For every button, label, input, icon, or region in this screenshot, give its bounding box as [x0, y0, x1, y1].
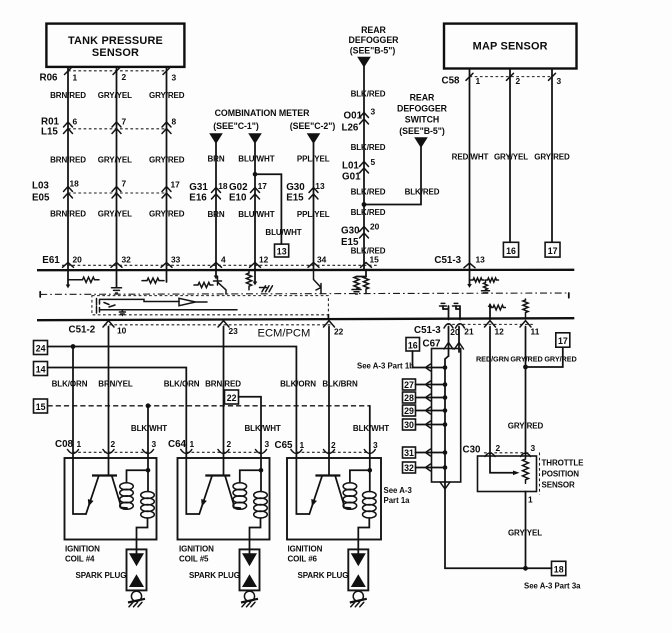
connector L03 / E05 row	[32, 178, 180, 203]
svg-text:3: 3	[557, 76, 562, 86]
svg-text:(SEE"B-5"): (SEE"B-5")	[350, 46, 396, 56]
pin entry chevron C67 right	[455, 343, 464, 350]
svg-text:4: 4	[221, 255, 226, 265]
svg-text:6: 6	[73, 117, 78, 127]
svg-text:E15: E15	[286, 193, 304, 204]
arrow from combination meter to BRN wire	[209, 133, 223, 144]
ECM internal: stub pin 32 with ground	[112, 271, 122, 293]
svg-text:GRY/YEL: GRY/YEL	[494, 153, 528, 162]
arrow from combination meter to BLU/WHT wire	[248, 133, 262, 144]
node junction of switch wire and main wire	[362, 202, 367, 207]
ECM internal: resistor between pins 32-33	[142, 278, 164, 283]
ECM internal: vertical resistor at pin 11	[523, 299, 528, 319]
TPS pin 1 wire GRY/YEL	[525, 492, 527, 569]
svg-text:GRY/RED: GRY/RED	[149, 91, 185, 100]
boxed ref 24	[34, 341, 48, 355]
svg-text:GRY/RED: GRY/RED	[534, 153, 570, 162]
svg-text:2: 2	[111, 439, 116, 449]
connector C64 row	[168, 439, 270, 454]
svg-text:3: 3	[371, 106, 376, 116]
ECM internal: long internal rail	[109, 310, 237, 316]
svg-text:G31: G31	[189, 182, 208, 193]
ECM internal: stub pin 13 RED/WHT with arrow	[467, 271, 472, 288]
wire C51-3 pin 12 RED/GRN to TPS pin 2	[489, 327, 491, 457]
svg-text:E16: E16	[189, 193, 207, 204]
ECM internal: transistor at pin 34	[314, 271, 322, 294]
svg-text:BRN/YEL: BRN/YEL	[98, 379, 133, 388]
wire branch from BLU/WHT node to boxed 13	[255, 174, 281, 244]
svg-text:BLK/RED: BLK/RED	[351, 187, 386, 196]
svg-text:2: 2	[516, 76, 521, 86]
ECM internal: vertical resistor right of pin 34 area	[246, 271, 251, 290]
svg-text:8: 8	[172, 117, 177, 127]
node bus pin 28	[443, 395, 448, 400]
svg-text:23: 23	[229, 326, 239, 336]
connector G30 / E15 row (right)	[341, 221, 380, 248]
svg-text:BLK/BRN: BLK/BRN	[322, 379, 358, 388]
ECM internal: stub pin 33	[166, 271, 168, 282]
node coil 6 pin 3 junction	[368, 468, 373, 473]
wire C51-3 pin 20 into C67	[448, 327, 450, 357]
svg-text:C51-3: C51-3	[414, 325, 441, 336]
svg-text:C64: C64	[168, 439, 187, 450]
svg-text:3: 3	[531, 443, 536, 453]
boxed ref 16 (GRY/YEL destination)	[503, 242, 518, 257]
svg-text:G30: G30	[341, 225, 360, 236]
svg-text:BLK/WHT: BLK/WHT	[353, 424, 389, 433]
svg-text:16: 16	[408, 340, 418, 350]
svg-text:15: 15	[36, 402, 46, 412]
svg-text:BLU/WHT: BLU/WHT	[265, 228, 301, 237]
svg-text:13: 13	[476, 255, 486, 265]
svg-text:BLK/RED: BLK/RED	[351, 247, 386, 256]
svg-text:BRN/RED: BRN/RED	[50, 156, 86, 165]
svg-text:BLK/RED: BLK/RED	[351, 143, 386, 152]
C67 internal bus	[445, 356, 449, 482]
svg-text:C08: C08	[55, 439, 74, 450]
svg-text:SPARK PLUG: SPARK PLUG	[189, 571, 240, 580]
svg-text:14: 14	[36, 365, 46, 375]
connector C65 row	[275, 440, 379, 454]
svg-text:SPARK PLUG: SPARK PLUG	[298, 571, 349, 580]
svg-text:DEFOGGER: DEFOGGER	[349, 35, 400, 45]
connector G02 / E10 row	[229, 181, 267, 204]
svg-text:33: 33	[171, 255, 181, 265]
svg-text:IGNITION: IGNITION	[65, 544, 100, 553]
svg-text:12: 12	[495, 327, 505, 337]
wire ref 27 to C67 bus	[416, 384, 446, 386]
svg-text:BLK/ORN: BLK/ORN	[280, 379, 316, 388]
svg-text:18: 18	[70, 178, 80, 188]
arrow from combination meter C-2 to PPL/YEL wire	[307, 133, 321, 144]
ECM internal: driver transistor C	[97, 305, 116, 313]
wire C51-2 pin 10 to coil 4 pin 2 BRN/YEL	[108, 327, 110, 459]
ECM internal: resistor and transistor near pin 33	[194, 277, 226, 295]
svg-text:REAR: REAR	[361, 25, 386, 35]
boxed ref 22	[225, 390, 239, 404]
svg-text:18: 18	[554, 565, 564, 575]
svg-text:E05: E05	[32, 192, 50, 203]
svg-text:GRY/RED: GRY/RED	[544, 354, 576, 363]
svg-text:3: 3	[373, 440, 378, 450]
wire tank pin2 GRY/YEL column	[116, 67, 118, 270]
svg-text:RED/WHT: RED/WHT	[452, 153, 489, 162]
svg-text:BLK/ORN: BLK/ORN	[164, 379, 200, 388]
svg-text:GRY/YEL: GRY/YEL	[98, 91, 132, 100]
boxed ref 15	[34, 399, 48, 413]
ground below spark plug 5	[241, 591, 258, 607]
svg-text:17: 17	[258, 181, 268, 191]
wire tank pin1 BRN/RED column	[67, 67, 69, 270]
wire ref 30 to C67 bus	[416, 424, 446, 426]
arrow from rear defogger switch to BLK/RED wire	[414, 137, 428, 148]
pin entry chevron C67 left	[444, 343, 453, 350]
svg-text:17: 17	[548, 246, 558, 256]
wire ref 31 to C67 bus	[416, 452, 446, 454]
svg-text:See A-3 Part 3a: See A-3 Part 3a	[524, 581, 581, 590]
svg-text:L15: L15	[41, 127, 58, 138]
wire C51-2 pin 22 to coil 6 pin 2 BLK/BRN	[328, 327, 330, 459]
svg-text:BLK/RED: BLK/RED	[351, 208, 386, 217]
wire ref 16 to C67 bus	[413, 351, 446, 368]
TPS boundary dashes	[539, 453, 541, 495]
connector G30 / E15 row	[286, 181, 325, 204]
svg-text:THROTTLE: THROTTLE	[542, 458, 585, 467]
svg-text:PPL/YEL: PPL/YEL	[297, 155, 330, 164]
node bus pin 29	[443, 408, 448, 413]
svg-text:COIL #4: COIL #4	[65, 554, 95, 563]
coil 6 pin 1 internal lead	[296, 458, 309, 514]
ignition coil #5 label	[179, 544, 214, 563]
svg-text:BLK/RED: BLK/RED	[351, 90, 386, 99]
connector C51-3 bottom row	[414, 321, 540, 337]
ECM internal: stub pin 4 with arrow	[214, 271, 219, 279]
wire BLU/WHT column	[254, 143, 256, 270]
ECM/PCM internal dash-dot boundary	[40, 292, 569, 298]
svg-text:5: 5	[371, 157, 376, 167]
svg-text:E61: E61	[42, 255, 60, 266]
ECM internal: stub pin 20 with arrow	[66, 271, 71, 288]
boxed ref 18	[552, 561, 566, 575]
svg-text:15: 15	[370, 255, 380, 265]
svg-text:E10: E10	[229, 193, 247, 204]
svg-text:21: 21	[464, 327, 474, 337]
svg-text:2: 2	[496, 443, 501, 453]
arrow from rear defogger to BLK/RED wire	[357, 57, 371, 68]
boxed ref 13	[275, 244, 289, 257]
ECM internal: link to transistor B	[109, 299, 179, 301]
svg-text:(SEE"C-1"): (SEE"C-1")	[213, 121, 259, 131]
svg-text:32: 32	[404, 463, 414, 473]
spark plug 5	[240, 549, 260, 590]
svg-text:L01: L01	[342, 160, 359, 171]
wire map pin3 GRY/RED column	[551, 69, 553, 243]
svg-text:13: 13	[277, 246, 287, 256]
svg-text:32: 32	[122, 255, 132, 265]
ignition coil #6 label	[288, 544, 323, 563]
svg-text:18: 18	[218, 181, 228, 191]
throttle position sensor label	[542, 458, 585, 489]
coil 4 secondary winding	[137, 492, 155, 554]
svg-text:27: 27	[404, 380, 414, 390]
connector G31 / E16 row	[189, 181, 228, 204]
svg-text:L26: L26	[342, 123, 359, 134]
chevron ref31 entry	[426, 449, 431, 456]
ECM internal: resistor between pins 20-32	[68, 277, 99, 282]
svg-text:COIL #5: COIL #5	[179, 554, 209, 563]
svg-text:SPARK PLUG: SPARK PLUG	[76, 571, 127, 580]
rear defogger label	[349, 25, 400, 56]
boxed ref 17 (GRY/RED destination)	[545, 242, 560, 257]
boxed ref 31	[403, 447, 416, 458]
boxed ref 32	[403, 462, 416, 473]
svg-text:10: 10	[117, 326, 127, 336]
connector O01 / L26 row	[342, 106, 376, 133]
svg-text:TANK PRESSURE: TANK PRESSURE	[68, 35, 163, 47]
node bus pin 30	[443, 422, 448, 427]
svg-text:GRY/RED: GRY/RED	[510, 354, 542, 363]
svg-text:GRY/RED: GRY/RED	[149, 209, 185, 218]
ECM/PCM top boundary line	[37, 269, 574, 272]
svg-text:2: 2	[331, 440, 336, 450]
svg-text:7: 7	[122, 178, 127, 188]
svg-text:POSITION: POSITION	[542, 469, 580, 478]
wire map pin1 RED/WHT column	[469, 69, 471, 271]
node bus pin 27	[443, 382, 448, 387]
wire BLK/RED defogger column	[363, 67, 365, 271]
wire C67 bus to ref 18 run	[445, 482, 552, 568]
node on BLU/WHT wire branching to ref 13	[253, 172, 258, 177]
ECM internal: arrow and resistor at pin 12	[488, 303, 506, 320]
chevron ref16 entry	[426, 364, 431, 371]
node bus pin 32	[443, 465, 448, 470]
svg-text:DEFOGGER: DEFOGGER	[397, 104, 448, 114]
TPS wiper arrow	[490, 456, 520, 475]
svg-text:BLK/WHT: BLK/WHT	[131, 424, 167, 433]
coil 5 pin 3 internal lead	[260, 458, 262, 492]
coil 6 primary winding	[343, 470, 370, 509]
wire C51-2 pin 23 to coil 5 pin 2 BRN/RED	[223, 327, 225, 459]
svg-text:R06: R06	[40, 73, 59, 84]
node GRY/RED junction with ref 17 wire	[523, 365, 528, 370]
chevron ref28 entry	[426, 394, 431, 401]
dashed wire from ref 15 feeding coil pins 3	[48, 406, 370, 458]
transistor Q5 (coil 5 igniter)	[199, 458, 240, 514]
node ref15 wire to coil 4 pin 3	[146, 403, 151, 408]
connector C51-3 top (pin 13)	[434, 255, 485, 268]
svg-text:24: 24	[36, 344, 46, 354]
svg-text:C51-3: C51-3	[434, 255, 461, 266]
svg-text:G30: G30	[286, 182, 305, 193]
svg-text:2: 2	[227, 439, 232, 449]
transistor Q4 (coil 4 igniter)	[86, 458, 127, 514]
boxed ref 16 (C67 side)	[406, 338, 420, 352]
svg-text:20: 20	[370, 221, 380, 231]
chevron ref29 entry	[426, 407, 431, 414]
connector E61 row (ECM top connector)	[42, 255, 379, 268]
node GRY/YEL joins run to ref 18	[523, 566, 528, 571]
wire from ref 14 to coil 5 pin 1 BLK/ORN	[48, 368, 187, 459]
svg-text:22: 22	[334, 327, 344, 337]
spark plug 4	[127, 549, 147, 590]
svg-text:C51-2: C51-2	[69, 324, 96, 335]
chevron C67 bottom exit	[440, 482, 450, 489]
coil 5 primary winding	[233, 470, 261, 509]
svg-text:3: 3	[152, 439, 157, 449]
svg-text:BLK/WHT: BLK/WHT	[245, 424, 281, 433]
tank pressure sensor box	[46, 24, 184, 67]
wire ref 32 to C67 bus	[416, 467, 446, 469]
wire C51-3 pin 21 into C67	[458, 327, 460, 353]
svg-text:COMBINATION METER: COMBINATION METER	[215, 108, 310, 118]
chevron ref27 entry	[426, 381, 431, 388]
svg-text:C30: C30	[463, 444, 482, 455]
svg-text:3: 3	[265, 439, 270, 449]
note see A-3 part 1a	[384, 486, 413, 505]
coil 5 secondary winding	[250, 492, 268, 554]
connector L01 / G01 row	[342, 157, 376, 183]
svg-text:SENSOR: SENSOR	[92, 47, 139, 59]
svg-text:C58: C58	[442, 75, 461, 86]
svg-text:1: 1	[77, 439, 82, 449]
svg-text:(SEE"C-2"): (SEE"C-2")	[290, 121, 336, 131]
svg-text:IGNITION: IGNITION	[288, 544, 323, 553]
wire map pin2 GRY/YEL column	[509, 69, 511, 243]
svg-text:BLU/WHT: BLU/WHT	[238, 155, 274, 164]
ECM internal: series resistors with pulldown at pin 13	[470, 278, 499, 293]
ECM internal: filter caps at pins 20/21	[440, 303, 461, 319]
node ref24 wire to coil 4 pin 1	[71, 344, 76, 349]
connector C08 row	[55, 439, 157, 454]
wire from rear defogger switch joining main BLK/RED	[364, 147, 421, 205]
wire coil 4 pin 3 BLK/WHT	[147, 406, 149, 458]
svg-text:31: 31	[404, 448, 414, 458]
svg-text:13: 13	[315, 181, 325, 191]
svg-text:SENSOR: SENSOR	[542, 480, 576, 489]
wire from ref 22 to coil 5 pin 3 BLK/WHT	[239, 397, 262, 458]
svg-text:1: 1	[528, 494, 533, 504]
svg-text:C67: C67	[423, 338, 442, 349]
throttle position sensor box C30	[478, 443, 537, 492]
coil 6 pin 3 internal lead	[369, 458, 371, 492]
svg-text:ECM/PCM: ECM/PCM	[258, 328, 311, 340]
boxed ref 30	[403, 419, 416, 430]
svg-text:REAR: REAR	[410, 93, 435, 103]
coil 6 secondary winding	[358, 492, 376, 554]
svg-text:20: 20	[73, 255, 83, 265]
wire from boxed ref 17 joining GRY/RED	[526, 348, 563, 368]
node bus pin 31	[443, 450, 448, 455]
ground below spark plug 6	[350, 591, 367, 607]
connector R06 row	[40, 68, 177, 84]
svg-text:29: 29	[404, 406, 414, 416]
wire ref 29 to C67 bus	[416, 410, 446, 412]
connector C51-2 row (ECM bottom left)	[69, 321, 344, 337]
svg-text:PPL/YEL: PPL/YEL	[297, 210, 330, 219]
svg-text:GRY/YEL: GRY/YEL	[98, 209, 132, 218]
svg-text:COIL #6: COIL #6	[288, 554, 318, 563]
combination meter labels	[213, 108, 335, 131]
svg-text:1: 1	[476, 76, 481, 86]
chevron ref30 entry	[426, 421, 431, 428]
ignition coil #6 box	[287, 458, 381, 540]
ignition coil #5 box	[178, 458, 270, 540]
boxed ref 27	[403, 379, 416, 390]
ground below spark plug 4	[128, 591, 145, 607]
svg-text:BRN: BRN	[207, 210, 224, 219]
svg-text:BRN/RED: BRN/RED	[50, 91, 86, 100]
ECM internal: driver transistor B	[179, 298, 207, 305]
wire ref 28 to C67 bus	[416, 397, 446, 399]
ECM internal: driver transistor A	[97, 299, 110, 306]
boxed ref 28	[403, 392, 416, 403]
svg-text:SWITCH: SWITCH	[405, 115, 439, 125]
boxed ref 14	[34, 362, 48, 376]
ECM internal: twin resistors to ground at pin 15 wire	[352, 271, 369, 294]
svg-text:GRY/YEL: GRY/YEL	[508, 528, 542, 537]
TPS potentiometer resistor	[523, 456, 529, 483]
svg-text:11: 11	[531, 327, 540, 337]
svg-text:1: 1	[190, 439, 195, 449]
svg-text:BLU/WHT: BLU/WHT	[238, 210, 274, 219]
svg-text:See A-3 Part 1b: See A-3 Part 1b	[357, 362, 414, 371]
coil 4 pin 1 internal lead	[73, 458, 86, 514]
svg-text:28: 28	[404, 393, 414, 403]
svg-text:GRY/YEL: GRY/YEL	[98, 156, 132, 165]
connector R01 / L15 row	[41, 116, 177, 137]
svg-text:GRY/RED: GRY/RED	[149, 156, 185, 165]
wire PPL/YEL column	[313, 143, 315, 270]
svg-text:BRN/RED: BRN/RED	[50, 209, 86, 218]
boxed ref 17 (source)	[556, 333, 570, 347]
transistor Q6 (coil 6 igniter)	[309, 458, 350, 514]
wire coil 4 pin 1 BLK/ORN	[72, 347, 74, 459]
coil 4 pin 3 internal lead	[147, 458, 149, 492]
svg-text:1: 1	[73, 73, 78, 83]
boxed ref 29	[403, 405, 416, 416]
svg-text:17: 17	[171, 179, 181, 189]
svg-text:30: 30	[404, 420, 414, 430]
svg-text:BRN: BRN	[207, 155, 224, 164]
svg-text:BLK/RED: BLK/RED	[405, 187, 440, 196]
rear defogger switch label	[397, 93, 448, 137]
svg-text:17: 17	[558, 336, 568, 346]
svg-text:12: 12	[259, 255, 269, 265]
svg-text:Part 1a: Part 1a	[384, 496, 411, 505]
svg-text:See A-3: See A-3	[384, 486, 413, 495]
coil 4 primary winding	[120, 470, 148, 509]
ECM/PCM name label	[255, 327, 315, 340]
wire tank pin3 GRY/RED column	[166, 67, 168, 270]
wire C51-3 pin 11 GRY/RED to TPS pin 3	[525, 327, 527, 457]
svg-text:2: 2	[122, 72, 127, 82]
ignition coil #4 box	[65, 458, 157, 540]
svg-text:L03: L03	[32, 180, 49, 191]
connector C58 row	[442, 73, 562, 86]
svg-text:3: 3	[172, 73, 177, 83]
svg-text:GRY/RED: GRY/RED	[508, 422, 544, 431]
connector C67 body	[432, 349, 461, 483]
wire from ref 24 feeding coil pins 1	[48, 347, 297, 459]
node coil 5 pin 3 junction	[259, 468, 264, 473]
wire BRN column	[215, 143, 217, 270]
svg-text:1: 1	[300, 440, 305, 450]
svg-text:22: 22	[227, 393, 237, 403]
svg-text:7: 7	[122, 117, 127, 127]
svg-text:16: 16	[506, 246, 516, 256]
node coil 4 pin 3 junction	[146, 468, 151, 473]
ECM internal: stub pin 12 with arrow and hatch ground	[253, 271, 273, 292]
